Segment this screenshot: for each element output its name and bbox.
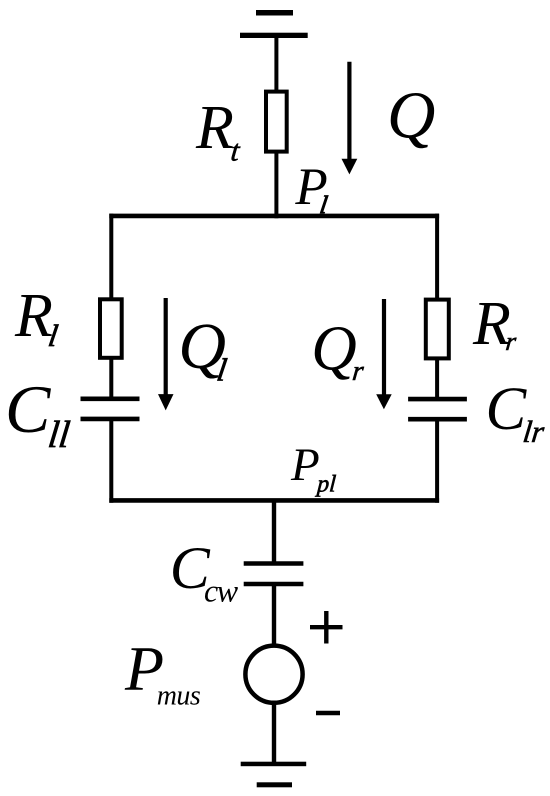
- wire: left branch down to R_l: [109, 214, 113, 300]
- flow arrow Q: head: [342, 159, 358, 175]
- wire: top ground to resistor Rt: [274, 36, 278, 93]
- capacitor C_lr: bottom plate: [408, 417, 467, 422]
- flow arrow Q_r: head: [376, 394, 392, 409]
- svg-text:Q: Q: [311, 314, 357, 384]
- capacitor C_cw: bottom plate: [244, 582, 304, 587]
- svg-text:Q: Q: [387, 79, 435, 153]
- minus sign of source: [316, 711, 340, 716]
- svg-text:R: R: [195, 94, 234, 162]
- plus sign of source: [310, 625, 343, 629]
- flow arrow Q_l: head: [158, 394, 174, 410]
- capacitor C_ll: bottom plate: [81, 417, 140, 422]
- svg-text:pl: pl: [314, 472, 337, 498]
- svg-text:C: C: [5, 371, 51, 447]
- capacitor C_lr: top plate: [408, 397, 467, 402]
- bottom ground: long bar: [241, 762, 307, 767]
- svg-text:C: C: [486, 376, 528, 443]
- wire: C_cw to source circle: [272, 584, 276, 646]
- top atmosphere ground: long bar: [240, 33, 308, 38]
- capacitor C_ll: top plate: [81, 396, 140, 401]
- wire: top bus: [109, 214, 439, 219]
- capacitor C_cw: top plate: [244, 561, 304, 566]
- wire: R_l to C_ll: [109, 358, 113, 399]
- resistor R_r: [426, 300, 449, 359]
- wire: source to bottom ground: [272, 703, 276, 764]
- svg-text:P: P: [290, 439, 320, 491]
- pressure source P_mus: circle: [245, 646, 302, 703]
- wire: right branch down to R_r: [435, 214, 439, 300]
- flow arrow Q_r: shaft: [382, 299, 386, 396]
- resistor R_l: [100, 299, 122, 358]
- wire: C_lr to bottom bus: [435, 419, 439, 503]
- bottom ground: short bar: [257, 782, 292, 787]
- svg-text:R: R: [14, 282, 53, 350]
- wire: bottom bus: [109, 498, 439, 503]
- wire: bus to C_cw: [272, 500, 276, 564]
- flow arrow Q: shaft: [347, 62, 351, 160]
- top atmosphere ground: short bar: [256, 10, 293, 16]
- wire: R_r to C_lr: [435, 358, 439, 399]
- wire: Rt to node P_l: [274, 152, 278, 219]
- wire: C_ll to bottom bus: [109, 419, 113, 503]
- svg-text:mus: mus: [157, 681, 201, 712]
- svg-text:cw: cw: [204, 572, 239, 608]
- flow arrow Q_l: shaft: [164, 298, 168, 396]
- resistor R_t: [266, 92, 287, 152]
